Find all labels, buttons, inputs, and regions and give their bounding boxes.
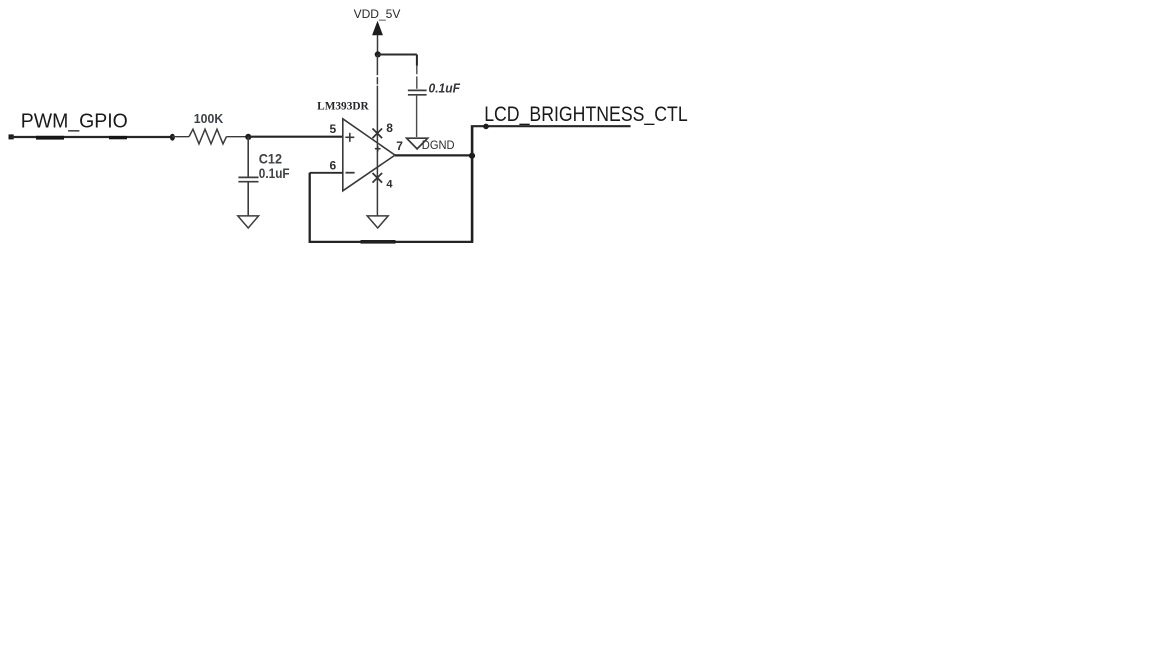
- wire PWM input: [11, 136, 173, 138]
- svg-text:0.1uF: 0.1uF: [259, 166, 290, 181]
- erased DGND text fragment on bottom wire: [361, 240, 396, 244]
- ground DGND: [407, 138, 428, 149]
- wire output pin 7: [395, 154, 473, 156]
- terminal PWM_GPIO: [9, 134, 14, 139]
- junction VDD node: [375, 51, 381, 57]
- wire VDD branch down to bypass cap: [416, 55, 418, 66]
- wire bypass cap to DGND: [416, 96, 418, 137]
- wire VDD to pin 8 and through op-amp to pin 4: [376, 55, 378, 216]
- svg-text:C12: C12: [259, 150, 282, 166]
- svg-text:6: 6: [330, 158, 337, 172]
- plus marker near output: [375, 148, 381, 150]
- no-connect X pin 8: [373, 129, 383, 139]
- svg-text:DGND: DGND: [422, 138, 455, 152]
- wire LCD net: [471, 125, 631, 127]
- node RC junction: [245, 134, 251, 140]
- svg-text:7: 7: [396, 139, 403, 153]
- capacitor C12: [238, 176, 258, 178]
- wire artifact gaps: [416, 74, 419, 76]
- svg-text:4: 4: [386, 179, 393, 191]
- junction LCD node: [483, 124, 489, 130]
- svg-text:0.1uF: 0.1uF: [429, 81, 461, 96]
- svg-text:PWM_GPIO: PWM_GPIO: [21, 110, 128, 132]
- resistor R1 100K: [189, 129, 227, 144]
- junction output node: [469, 153, 475, 159]
- junction input node: [170, 134, 175, 141]
- svg-text:VDD_5V: VDD_5V: [354, 7, 402, 21]
- wire VDD branch horizontal: [378, 54, 417, 56]
- wire resistor right lead: [227, 136, 248, 138]
- power symbol VDD_5V arrow: [373, 22, 382, 35]
- svg-text:5: 5: [330, 122, 337, 136]
- ground for op-amp: [367, 216, 388, 228]
- feedback wire left vertical: [309, 173, 311, 242]
- wire output vertical: [471, 126, 474, 242]
- ground for C12: [238, 216, 259, 228]
- wire C12 top: [247, 137, 249, 177]
- svg-text:LCD_BRIGHTNESS_CTL: LCD_BRIGHTNESS_CTL: [484, 103, 688, 126]
- svg-text:100K: 100K: [194, 111, 224, 126]
- op-amp U1 triangle: [343, 119, 395, 191]
- wire C12 bottom: [247, 182, 249, 215]
- wire junction to resistor: [172, 136, 189, 138]
- feedback wire bottom: [309, 241, 474, 243]
- wire pin 6 stub: [310, 172, 343, 174]
- svg-text:8: 8: [386, 121, 393, 135]
- op-amp plus input marker: [345, 136, 354, 138]
- wire VDD stem: [377, 35, 379, 55]
- wire resistor to pin 5: [248, 136, 342, 138]
- svg-text:LM393DR: LM393DR: [317, 101, 369, 113]
- capacitor bypass 0.1uF: [408, 89, 427, 91]
- op-amp minus input marker: [346, 172, 355, 174]
- no-connect X pin 4: [373, 173, 383, 183]
